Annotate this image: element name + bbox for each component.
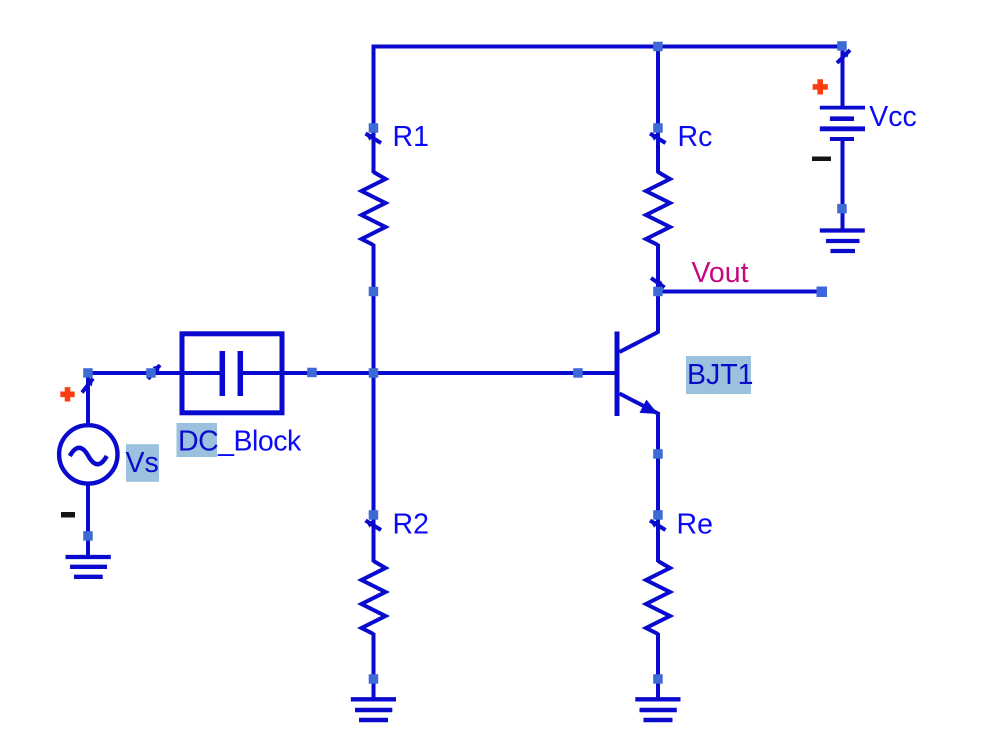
pin tick Re (650, 521, 666, 531)
label DC_Block partially highlighted (177, 423, 302, 458)
wire R1 to base junction (372, 244, 376, 375)
svg-text:Rc: Rc (678, 121, 713, 153)
ground under Vcc (820, 231, 865, 252)
svg-text:Vout: Vout (692, 257, 749, 289)
wire Rc column upper (656, 45, 660, 174)
label R1 (393, 121, 429, 153)
node square emitter (653, 449, 663, 459)
wire collector vertical (656, 290, 660, 333)
wire R1 column upper (372, 45, 376, 174)
svg-text:DC_Block: DC_Block (178, 426, 302, 458)
node square top rail junction (653, 42, 663, 52)
svg-text:Re: Re (677, 509, 713, 541)
wire Vout (658, 290, 822, 294)
wire emitter vertical (656, 412, 660, 562)
svg-text:R2: R2 (393, 509, 429, 541)
label Vcc (869, 101, 917, 133)
pin tick Vs (82, 379, 93, 393)
node square R2 bottom (369, 674, 379, 684)
node square base row 2 (573, 368, 583, 378)
wire base junction to R2 (372, 373, 376, 562)
transistor BJT1 (615, 332, 660, 417)
node square base junction (369, 368, 379, 378)
wire base row left (88, 371, 222, 375)
battery Vcc (820, 45, 865, 231)
resistor R2 (362, 561, 386, 634)
node square DC_Block out (307, 368, 317, 378)
resistor Re (646, 561, 670, 634)
label Re (677, 509, 713, 541)
label BJT1 highlighted (686, 356, 754, 394)
pin tick DC_Block (148, 365, 160, 379)
node square R1 top (369, 123, 379, 133)
node square Vcc top (837, 41, 847, 51)
ground under Vs (66, 557, 111, 577)
label R2 (393, 509, 429, 541)
resistor Rc (646, 172, 670, 245)
source Vs (59, 373, 117, 557)
plus sign Vs (60, 387, 74, 401)
terminal square Vout end (817, 287, 828, 298)
wire Rc to Vout junction (656, 244, 660, 293)
minus sign Vs (61, 512, 75, 518)
wire base row right (240, 371, 617, 375)
ground under Re (635, 699, 680, 720)
resistor R1 (362, 172, 386, 245)
plus sign Vcc (813, 79, 828, 94)
wire Re to ground (656, 633, 660, 699)
node square Vout junction (653, 287, 663, 297)
node square Vs plus (83, 368, 93, 378)
node label Vout (692, 257, 749, 289)
node square base row 1 (146, 368, 156, 378)
node square Re top (653, 510, 663, 520)
pin tick Rc (650, 134, 666, 144)
ground under R2 (351, 699, 396, 720)
wire R2 to ground (372, 633, 376, 699)
svg-text:R1: R1 (393, 121, 429, 153)
pin tick R1 (366, 134, 382, 144)
svg-text:Vcc: Vcc (869, 101, 917, 133)
pin tick R2 (366, 521, 382, 531)
pin tick Vcc (837, 50, 850, 63)
svg-text:Vs: Vs (126, 447, 159, 479)
svg-text:BJT1: BJT1 (687, 359, 754, 391)
node square Vcc bottom (837, 204, 847, 214)
node square Vs bottom (83, 531, 93, 541)
capacitor DC_Block (182, 334, 282, 413)
label Vs highlighted (126, 444, 160, 482)
label Rc (678, 121, 713, 153)
pin tick collector (651, 278, 665, 288)
minus sign Vcc (812, 157, 831, 162)
wire top rail (372, 45, 843, 49)
node square Rc top (653, 123, 663, 133)
node square R1 bottom (369, 287, 379, 297)
node square R2 top (369, 510, 379, 520)
node square Re bottom (653, 674, 663, 684)
